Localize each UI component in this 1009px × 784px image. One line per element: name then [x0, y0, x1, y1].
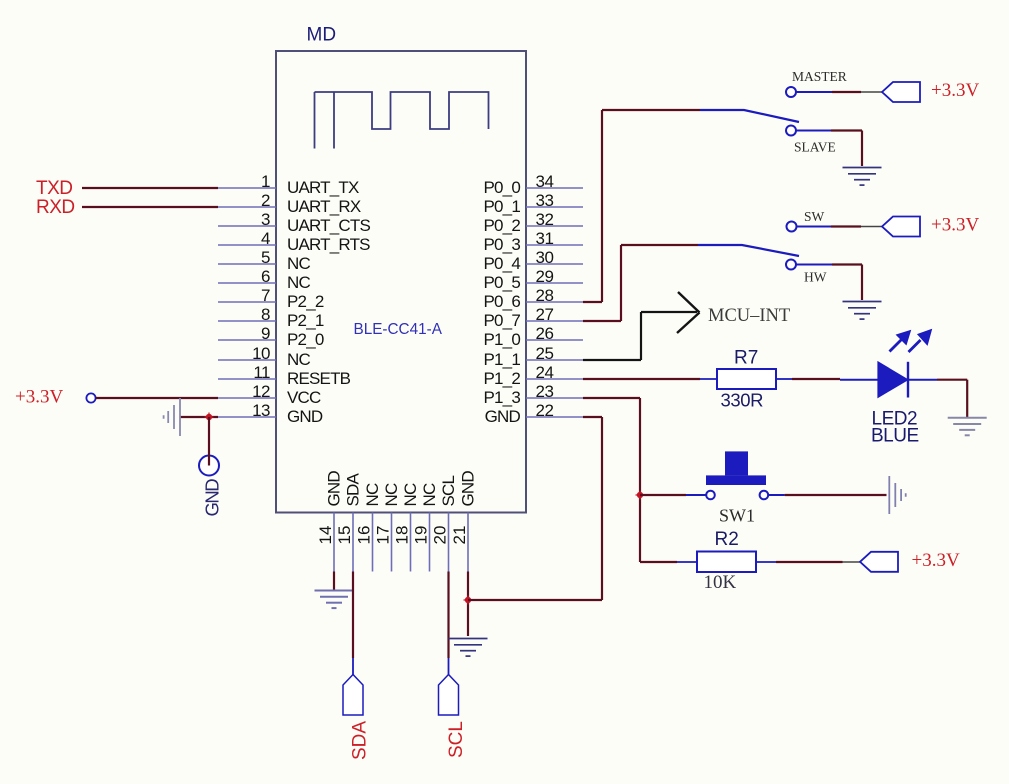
svg-text:R7: R7 — [734, 348, 758, 369]
svg-text:SDA: SDA — [350, 721, 371, 760]
svg-text:NC: NC — [382, 483, 401, 506]
svg-text:+3.3V: +3.3V — [931, 215, 979, 236]
svg-text:R2: R2 — [715, 529, 739, 550]
svg-text:RXD: RXD — [36, 197, 75, 218]
svg-text:10K: 10K — [704, 572, 737, 593]
svg-text:P1_3: P1_3 — [483, 388, 520, 407]
svg-text:4: 4 — [261, 229, 270, 248]
svg-text:29: 29 — [536, 267, 554, 286]
svg-text:3: 3 — [261, 210, 270, 229]
svg-text:18: 18 — [393, 526, 412, 545]
svg-text:23: 23 — [536, 382, 554, 401]
svg-text:8: 8 — [261, 305, 270, 324]
svg-text:UART_RTS: UART_RTS — [287, 235, 370, 254]
svg-text:30: 30 — [536, 248, 554, 267]
svg-text:9: 9 — [261, 324, 270, 343]
svg-text:32: 32 — [536, 210, 554, 229]
svg-text:UART_TX: UART_TX — [287, 178, 359, 197]
svg-text:SCL: SCL — [446, 721, 467, 758]
svg-text:NC: NC — [401, 483, 420, 506]
svg-text:14: 14 — [316, 526, 335, 545]
svg-text:P0_0: P0_0 — [483, 178, 520, 197]
svg-text:16: 16 — [355, 526, 374, 545]
svg-text:MCU–INT: MCU–INT — [708, 306, 790, 326]
svg-text:7: 7 — [261, 286, 270, 305]
svg-text:GND: GND — [325, 471, 344, 507]
svg-text:19: 19 — [412, 526, 431, 545]
svg-text:5: 5 — [261, 248, 270, 267]
svg-text:SCL: SCL — [439, 475, 458, 506]
svg-text:GND: GND — [287, 407, 323, 426]
svg-text:31: 31 — [536, 229, 554, 248]
svg-text:P2_2: P2_2 — [287, 292, 324, 311]
svg-text:12: 12 — [252, 382, 270, 401]
svg-text:+3.3V: +3.3V — [15, 387, 63, 408]
svg-text:NC: NC — [287, 273, 310, 292]
svg-text:21: 21 — [450, 526, 469, 545]
svg-text:P0_6: P0_6 — [483, 292, 520, 311]
svg-text:P1_2: P1_2 — [483, 369, 520, 388]
svg-text:15: 15 — [335, 526, 354, 545]
svg-text:24: 24 — [536, 363, 554, 382]
svg-text:2: 2 — [261, 191, 270, 210]
svg-text:P1_0: P1_0 — [483, 330, 520, 349]
svg-text:GND: GND — [459, 471, 478, 507]
svg-text:NC: NC — [363, 483, 382, 506]
svg-text:+3.3V: +3.3V — [931, 80, 979, 101]
svg-text:33: 33 — [536, 191, 554, 210]
svg-text:NC: NC — [287, 350, 310, 369]
svg-text:UART_CTS: UART_CTS — [287, 216, 370, 235]
svg-text:P0_4: P0_4 — [483, 254, 520, 273]
svg-text:27: 27 — [536, 305, 554, 324]
svg-text:25: 25 — [536, 344, 554, 363]
svg-text:P0_1: P0_1 — [483, 197, 520, 216]
svg-text:P0_7: P0_7 — [483, 311, 520, 330]
svg-text:26: 26 — [536, 324, 554, 343]
svg-text:BLE-CC41-A: BLE-CC41-A — [354, 321, 443, 338]
svg-text:11: 11 — [253, 363, 270, 382]
svg-text:RESETB: RESETB — [287, 369, 351, 388]
svg-text:1: 1 — [261, 172, 270, 191]
svg-text:P1_1: P1_1 — [483, 350, 520, 369]
svg-text:TXD: TXD — [36, 178, 73, 199]
svg-text:UART_RX: UART_RX — [287, 197, 361, 216]
svg-text:SW: SW — [804, 209, 825, 224]
svg-text:P2_0: P2_0 — [287, 330, 324, 349]
svg-text:GND: GND — [202, 479, 223, 517]
svg-text:HW: HW — [804, 270, 827, 285]
svg-text:13: 13 — [252, 401, 270, 420]
svg-text:+3.3V: +3.3V — [912, 550, 960, 571]
svg-text:22: 22 — [536, 401, 554, 420]
svg-text:34: 34 — [536, 172, 554, 191]
svg-text:330R: 330R — [721, 390, 764, 411]
svg-text:MD: MD — [307, 25, 337, 46]
svg-text:17: 17 — [374, 526, 393, 545]
svg-text:NC: NC — [287, 254, 310, 273]
svg-text:BLUE: BLUE — [871, 426, 919, 447]
svg-text:SDA: SDA — [344, 472, 363, 506]
svg-text:28: 28 — [536, 286, 554, 305]
svg-text:6: 6 — [261, 267, 270, 286]
svg-text:P0_3: P0_3 — [483, 235, 520, 254]
svg-text:P0_5: P0_5 — [483, 273, 520, 292]
svg-text:P2_1: P2_1 — [287, 311, 324, 330]
svg-text:SW1: SW1 — [719, 506, 755, 526]
svg-text:VCC: VCC — [287, 388, 321, 407]
svg-text:20: 20 — [431, 526, 450, 545]
svg-text:NC: NC — [420, 483, 439, 506]
svg-text:SLAVE: SLAVE — [794, 140, 836, 155]
svg-text:10: 10 — [252, 344, 270, 363]
svg-text:GND: GND — [485, 407, 521, 426]
svg-text:P0_2: P0_2 — [483, 216, 520, 235]
svg-text:MASTER: MASTER — [792, 69, 847, 84]
